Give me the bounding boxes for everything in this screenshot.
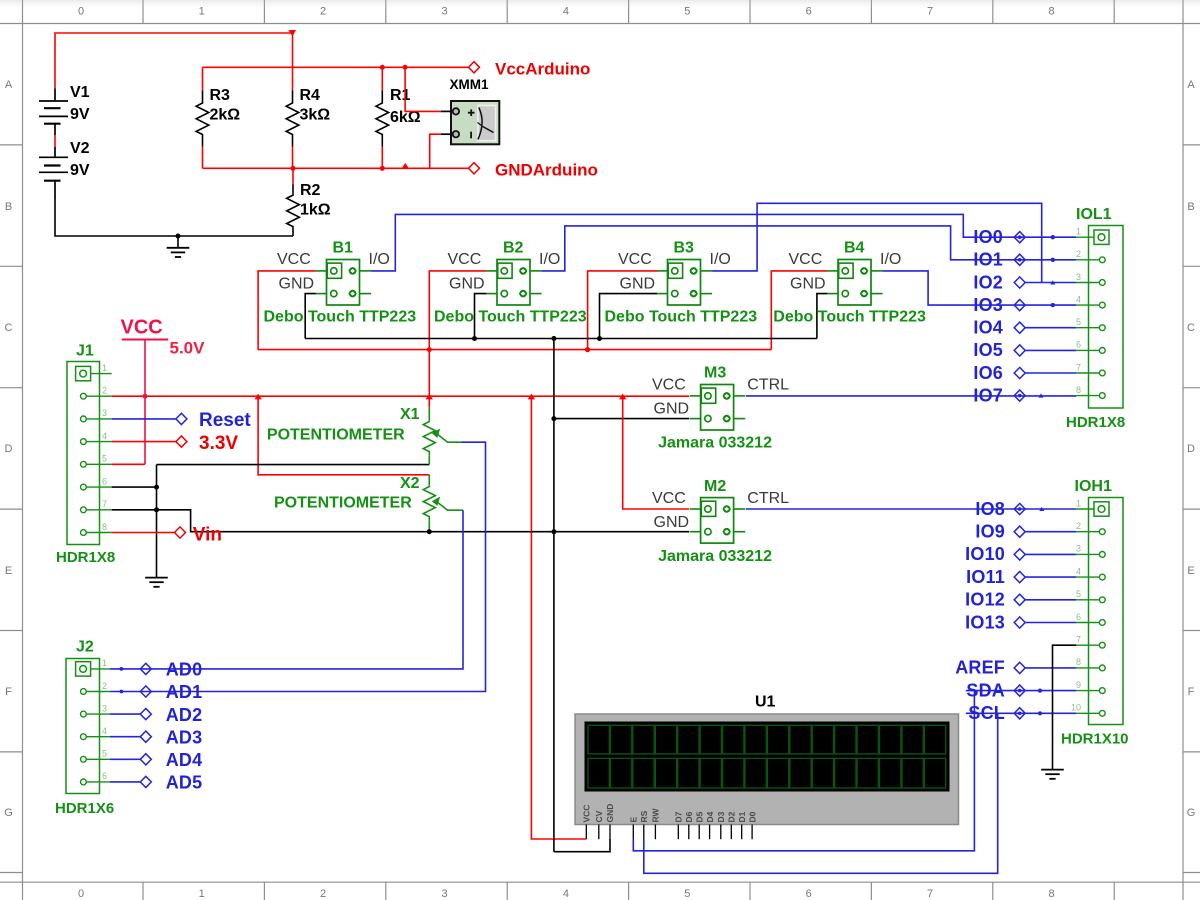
node pin7 join (154, 507, 159, 512)
IOH1 pin 6 (1076, 612, 1105, 626)
lcd pin leads (586, 825, 752, 840)
svg-text:B3: B3 (674, 240, 695, 257)
svg-text:Vin: Vin (193, 525, 222, 546)
node LCD VCC drop (528, 394, 535, 400)
wire M3 GND (554, 418, 689, 420)
node B3 GND (597, 336, 602, 341)
svg-text:4: 4 (1076, 294, 1081, 304)
svg-text:AD4: AD4 (166, 750, 203, 770)
wire IO13 stub (1025, 622, 1076, 624)
svg-text:0: 0 (78, 6, 84, 18)
svg-text:GND: GND (605, 804, 615, 823)
node X2 bottom (427, 529, 432, 534)
callout IO13 (1014, 617, 1025, 628)
J2 pin 1 (76, 658, 110, 676)
svg-text:5: 5 (684, 6, 690, 18)
svg-text:A: A (1187, 79, 1195, 91)
svg-text:R1: R1 (390, 87, 411, 104)
node R1 top (380, 65, 385, 70)
wire J1 pin8 Vin (112, 532, 175, 534)
J1 pin 8 (81, 522, 112, 536)
svg-text:1: 1 (102, 658, 107, 668)
svg-text:IO2: IO2 (973, 272, 1003, 292)
svg-text:CV: CV (594, 810, 604, 822)
IOH1 pin 9 (1076, 680, 1105, 694)
svg-text:D7: D7 (674, 811, 684, 822)
wire J1 pin6 GND jog (112, 486, 157, 488)
wire B1 VCC feed (258, 271, 316, 350)
svg-text:7: 7 (927, 888, 933, 900)
svg-text:8: 8 (102, 522, 107, 532)
motor driver M2 (690, 498, 745, 543)
svg-text:9: 9 (1076, 680, 1081, 690)
ground GND2 (145, 578, 168, 587)
svg-text:1kΩ: 1kΩ (300, 202, 331, 219)
svg-text:D6: D6 (684, 811, 694, 822)
svg-text:D: D (1187, 443, 1195, 455)
callout AD2 (110, 713, 141, 715)
svg-text:3: 3 (1076, 544, 1081, 554)
resistor R1 (381, 67, 383, 90)
J1 pin 6 (81, 476, 112, 490)
svg-text:9V: 9V (70, 162, 90, 179)
svg-text:F: F (1188, 686, 1195, 698)
svg-text:A: A (5, 79, 13, 91)
wire M2 VCC branch (623, 396, 690, 509)
node B3 VCC (585, 347, 590, 352)
touch sensor B1 (316, 260, 371, 306)
wire X1 bottom (157, 464, 430, 466)
wire B1 I/O to IO0 (371, 214, 1076, 271)
svg-text:IOL1: IOL1 (1076, 206, 1112, 223)
node B2 VCC (427, 347, 432, 352)
junction battery+/R4 (289, 30, 297, 37)
IOL1 pin 1 (1076, 227, 1109, 245)
node VCC stem (143, 394, 148, 399)
IOH1 pin 7 (1076, 635, 1105, 649)
callout AD0 (140, 663, 151, 674)
wire 5V branch down to X2 (258, 396, 429, 475)
svg-text:VCC: VCC (121, 317, 163, 339)
svg-text:X1: X1 (400, 406, 420, 423)
svg-text:IO5: IO5 (973, 340, 1003, 360)
svg-text:J2: J2 (76, 639, 94, 656)
svg-text:6: 6 (102, 771, 107, 781)
svg-text:D0: D0 (747, 811, 757, 822)
svg-text:X2: X2 (400, 475, 420, 492)
wire GND rail sensors (305, 338, 817, 340)
marker IO1 (1051, 258, 1055, 262)
wire M-GND column (553, 339, 555, 852)
svg-text:2: 2 (102, 681, 107, 691)
wire IO12 stub (1025, 599, 1076, 601)
svg-text:D2: D2 (727, 811, 737, 822)
wire battery+ top (55, 33, 293, 89)
marker IO8 (1039, 507, 1044, 511)
callout Reset (112, 418, 176, 420)
svg-text:VCC: VCC (652, 377, 686, 394)
svg-text:HDR1X6: HDR1X6 (55, 800, 114, 817)
svg-text:E: E (1187, 565, 1194, 577)
svg-text:6: 6 (806, 6, 812, 18)
node XMM- branch (402, 163, 409, 169)
svg-text:D4: D4 (705, 811, 715, 822)
svg-text:B4: B4 (844, 240, 865, 257)
callout AD4 (110, 758, 141, 760)
J2 pin 4 (81, 726, 110, 740)
marker IO2 (1050, 280, 1055, 284)
svg-text:R3: R3 (210, 87, 231, 104)
svg-text:9V: 9V (70, 106, 90, 123)
svg-text:POTENTIOMETER: POTENTIOMETER (274, 495, 412, 512)
svg-text:3: 3 (1076, 272, 1081, 282)
wire B2 I/O to IO1 (542, 226, 1077, 271)
svg-text:HDR1X10: HDR1X10 (1061, 731, 1129, 748)
resistor R4 (292, 91, 294, 102)
svg-text:B: B (1187, 201, 1194, 213)
IOH1 pin 1 (1076, 498, 1109, 516)
svg-text:IO9: IO9 (975, 522, 1005, 542)
wire M2 CTRL to IO8 (746, 508, 1076, 510)
svg-text:4: 4 (563, 6, 569, 18)
svg-text:2: 2 (1076, 249, 1081, 259)
J2 pin 2 (81, 681, 110, 695)
callout SCL (1014, 708, 1025, 719)
svg-text:Debo Touch TTP223: Debo Touch TTP223 (264, 309, 417, 326)
svg-text:U1: U1 (755, 694, 776, 711)
svg-text:R4: R4 (300, 87, 321, 104)
wire B4 I/O to IO3 (883, 271, 1077, 305)
callout AD1 (140, 686, 151, 697)
svg-text:IO10: IO10 (965, 544, 1005, 564)
svg-text:VCC: VCC (652, 490, 686, 507)
svg-text:RW: RW (651, 808, 661, 823)
svg-text:1: 1 (199, 6, 205, 18)
svg-text:IO4: IO4 (973, 318, 1003, 338)
svg-text:VccArduino: VccArduino (495, 60, 590, 79)
potentiometer X2 (428, 475, 430, 485)
svg-text:IO1: IO1 (973, 250, 1003, 270)
svg-text:D1: D1 (737, 811, 747, 822)
svg-text:AREF: AREF (955, 658, 1005, 678)
wire B3 VCC (588, 271, 657, 350)
marker SDA (1038, 689, 1042, 693)
svg-text:CTRL: CTRL (747, 377, 789, 394)
J1 pin 4 (81, 431, 112, 445)
wire B4 VCC (771, 271, 827, 350)
svg-text:4: 4 (102, 726, 107, 736)
callout IO10 (1014, 549, 1025, 560)
svg-text:D3: D3 (716, 811, 726, 822)
svg-text:I/O: I/O (880, 251, 901, 268)
svg-text:M3: M3 (704, 365, 726, 382)
IOL1 pin 8 (1076, 385, 1105, 399)
wire SDA (966, 690, 1077, 692)
wire LCD E to SDA (633, 691, 974, 851)
svg-text:CTRL: CTRL (747, 490, 789, 507)
svg-text:5: 5 (102, 454, 107, 464)
svg-text:D5: D5 (694, 811, 704, 822)
svg-text:B: B (5, 201, 12, 213)
svg-text:D: D (5, 443, 13, 455)
svg-text:2: 2 (1076, 521, 1081, 531)
svg-text:3: 3 (441, 6, 447, 18)
callout IO12 (1014, 594, 1025, 605)
svg-text:IO12: IO12 (965, 590, 1005, 610)
callout AD3 (110, 736, 141, 738)
IOL1 pin 5 (1076, 317, 1105, 331)
wire LCD VCC feed (531, 396, 586, 839)
svg-text:8: 8 (1076, 385, 1081, 395)
svg-text:4: 4 (1076, 566, 1081, 576)
header J2 (66, 659, 100, 794)
wire GND column to ground (156, 465, 158, 578)
wire B1 GND (305, 294, 316, 339)
callout IO4 (1014, 322, 1025, 333)
svg-text:8: 8 (1076, 657, 1081, 667)
wire B2 GND (475, 294, 487, 339)
svg-text:IO0: IO0 (973, 227, 1003, 247)
wire IO2 stub (1025, 282, 1076, 284)
marker IO3 (1051, 303, 1055, 307)
svg-text:I/O: I/O (710, 251, 731, 268)
svg-text:IO11: IO11 (966, 567, 1005, 587)
svg-text:5: 5 (1076, 317, 1081, 327)
svg-text:V1: V1 (70, 84, 90, 101)
svg-text:6: 6 (1076, 612, 1081, 622)
svg-text:Debo Touch TTP223: Debo Touch TTP223 (434, 309, 587, 326)
IOH1 pin 8 (1076, 657, 1105, 671)
svg-text:6: 6 (102, 476, 107, 486)
IOL1 pin 4 (1076, 294, 1105, 308)
callout SDA (1014, 685, 1025, 696)
callout AREF (1014, 662, 1025, 673)
motor driver M3 (690, 385, 745, 431)
svg-text:10: 10 (1071, 703, 1081, 713)
svg-text:4: 4 (563, 888, 569, 900)
wire B4 GND (817, 294, 828, 339)
callout IO1 (1014, 254, 1025, 265)
wire M3 CTRL to IO7 (746, 395, 1076, 397)
wire IO6 stub (1025, 372, 1076, 374)
wire LCD GND feed (554, 839, 610, 852)
wire IO9 stub (1025, 531, 1076, 533)
IOH1 pin 10 (1071, 703, 1105, 717)
svg-text:2: 2 (320, 888, 326, 900)
svg-text:2: 2 (102, 386, 107, 396)
ground GND1 (177, 236, 179, 248)
IOL1 pin 3 (1076, 272, 1105, 286)
svg-text:6: 6 (806, 888, 812, 900)
svg-text:3: 3 (102, 703, 107, 713)
node XMM+ branch (403, 65, 408, 70)
svg-text:POTENTIOMETER: POTENTIOMETER (267, 427, 405, 444)
svg-text:VCC: VCC (618, 251, 652, 268)
svg-text:6: 6 (1076, 340, 1081, 350)
header IOL1 (1089, 226, 1124, 409)
node X1 top (426, 394, 433, 400)
callout VccArduino (469, 62, 480, 73)
IOH1 pin 2 (1076, 521, 1105, 535)
wire V1-V2 (54, 135, 56, 147)
callout IO6 (1014, 367, 1025, 378)
wire GND rail to GNDArduino (203, 167, 469, 169)
svg-text:M2: M2 (704, 478, 726, 495)
svg-text:GND: GND (620, 276, 656, 293)
svg-text:1: 1 (1076, 227, 1081, 237)
svg-text:G: G (1187, 807, 1196, 819)
J1 pin 7 (81, 499, 112, 513)
svg-text:IOH1: IOH1 (1075, 478, 1112, 495)
svg-text:B2: B2 (503, 240, 524, 257)
wire VCC rail to VccArduino (203, 66, 469, 68)
touch sensor B4 (827, 260, 882, 306)
svg-text:B1: B1 (333, 240, 354, 257)
svg-text:IO3: IO3 (973, 295, 1003, 315)
svg-text:RS: RS (639, 810, 649, 822)
multimeter XMM1 (451, 101, 499, 144)
svg-text:VCC: VCC (582, 805, 592, 823)
svg-text:R2: R2 (300, 182, 321, 199)
wire X1 wiper to AD1 (110, 442, 486, 691)
marker IO0 (1051, 235, 1055, 239)
svg-text:VCC: VCC (448, 251, 482, 268)
header J1 (67, 362, 100, 545)
IOH1 pin 5 (1076, 589, 1105, 603)
node R1 bottom (380, 166, 385, 171)
svg-text:1: 1 (199, 888, 205, 900)
touch sensor B2 (486, 260, 541, 306)
svg-text:GND: GND (654, 401, 690, 418)
callout IO3 (1014, 300, 1025, 311)
marker SCL (1038, 711, 1042, 715)
wire J1 pin5 to VCC stem (112, 463, 145, 465)
J2 pin 6 (81, 771, 110, 785)
touch sensor B3 (657, 260, 712, 306)
wire IO4 stub (1025, 327, 1076, 329)
wire XMM1 - lead (430, 134, 441, 168)
node pin6 join (154, 485, 159, 490)
svg-text:3kΩ: 3kΩ (300, 107, 331, 124)
potentiometer X1 (428, 396, 430, 408)
marker IO7 (1039, 393, 1044, 397)
svg-text:XMM1: XMM1 (450, 77, 489, 92)
wire J1 pin2 5V rail to M3 (112, 395, 690, 397)
wire B2 VCC (429, 271, 486, 396)
header IOH1 (1089, 498, 1124, 725)
wire XMM1 + lead (405, 67, 441, 111)
svg-text:HDR1X8: HDR1X8 (56, 549, 115, 566)
battery V2 (39, 147, 68, 199)
ground GND3 (1041, 770, 1064, 779)
svg-text:IO7: IO7 (973, 385, 1003, 405)
wire X2 wiper to AD0 (110, 510, 463, 669)
node M3 GND (551, 416, 556, 421)
svg-text:V2: V2 (70, 140, 90, 157)
J1 pin 1 (76, 363, 112, 381)
svg-text:5: 5 (1076, 589, 1081, 599)
resistor R2 (292, 168, 294, 184)
wire IO5 stub (1025, 349, 1076, 351)
svg-text:AD3: AD3 (166, 727, 203, 747)
svg-text:C: C (5, 322, 13, 334)
callout IO8 (1014, 503, 1025, 514)
node M2 branch (619, 394, 626, 400)
callout IO5 (1014, 345, 1025, 356)
svg-text:7: 7 (1076, 362, 1081, 372)
J1 pin 2 (81, 386, 112, 400)
node M-GND column (551, 336, 556, 341)
svg-text:Jamara 033212: Jamara 033212 (658, 435, 772, 452)
node X2 branch (254, 394, 261, 400)
svg-text:I/O: I/O (369, 251, 390, 268)
svg-text:SCL: SCL (968, 703, 1005, 723)
svg-text:7: 7 (102, 499, 107, 509)
svg-text:Debo Touch TTP223: Debo Touch TTP223 (605, 309, 758, 326)
node LCD GND drop (551, 529, 556, 534)
wire IOH1 pin7 to ground (1053, 645, 1077, 769)
callout IO9 (1014, 526, 1025, 537)
callout AD5 (110, 781, 141, 783)
svg-text:Debo Touch TTP223: Debo Touch TTP223 (773, 309, 926, 326)
svg-text:C: C (1187, 322, 1195, 334)
wire J1 pin7 to GND rail (112, 510, 690, 532)
svg-text:5: 5 (102, 749, 107, 759)
svg-text:GND: GND (449, 276, 485, 293)
svg-text:5: 5 (684, 888, 690, 900)
svg-text:E: E (629, 817, 639, 823)
IOL1 pin 2 (1076, 249, 1105, 263)
wire AREF stub (1025, 667, 1076, 669)
svg-text:7: 7 (1076, 635, 1081, 645)
callout Vin (175, 527, 186, 538)
J2 pin 3 (81, 703, 110, 717)
IOL1 pin 6 (1076, 340, 1105, 354)
svg-text:VCC: VCC (789, 251, 823, 268)
wire IO10 stub (1025, 553, 1076, 555)
callout IO2 (1014, 277, 1025, 288)
svg-text:SDA: SDA (966, 680, 1005, 700)
svg-text:Reset: Reset (199, 410, 251, 431)
IOH1 pin 3 (1076, 544, 1105, 558)
svg-text:AD0: AD0 (166, 660, 203, 680)
svg-text:HDR1X8: HDR1X8 (1066, 414, 1125, 431)
callout 3.3V (112, 441, 176, 443)
svg-text:F: F (5, 686, 12, 698)
svg-text:I/O: I/O (539, 251, 560, 268)
callout IO7 (1014, 390, 1025, 401)
wire battery- to R2 bottom (55, 199, 293, 236)
svg-text:1: 1 (1076, 498, 1081, 508)
J1 pin 3 (81, 408, 112, 422)
svg-text:2: 2 (320, 6, 326, 18)
wire B3 GND (600, 294, 658, 339)
wire IO11 stub (1025, 576, 1076, 578)
svg-text:IO6: IO6 (973, 363, 1003, 383)
callout IO0 (1014, 232, 1025, 243)
node R2 top (291, 166, 296, 171)
svg-text:0: 0 (78, 888, 84, 900)
svg-text:8: 8 (1048, 888, 1054, 900)
svg-text:1: 1 (102, 363, 107, 373)
svg-text:VCC: VCC (277, 251, 311, 268)
svg-text:5.0V: 5.0V (170, 338, 206, 357)
svg-text:J1: J1 (76, 343, 94, 360)
svg-text:3.3V: 3.3V (199, 433, 238, 454)
IOL1 pin 7 (1076, 362, 1105, 376)
svg-text:E: E (5, 565, 12, 577)
svg-text:7: 7 (927, 6, 933, 18)
